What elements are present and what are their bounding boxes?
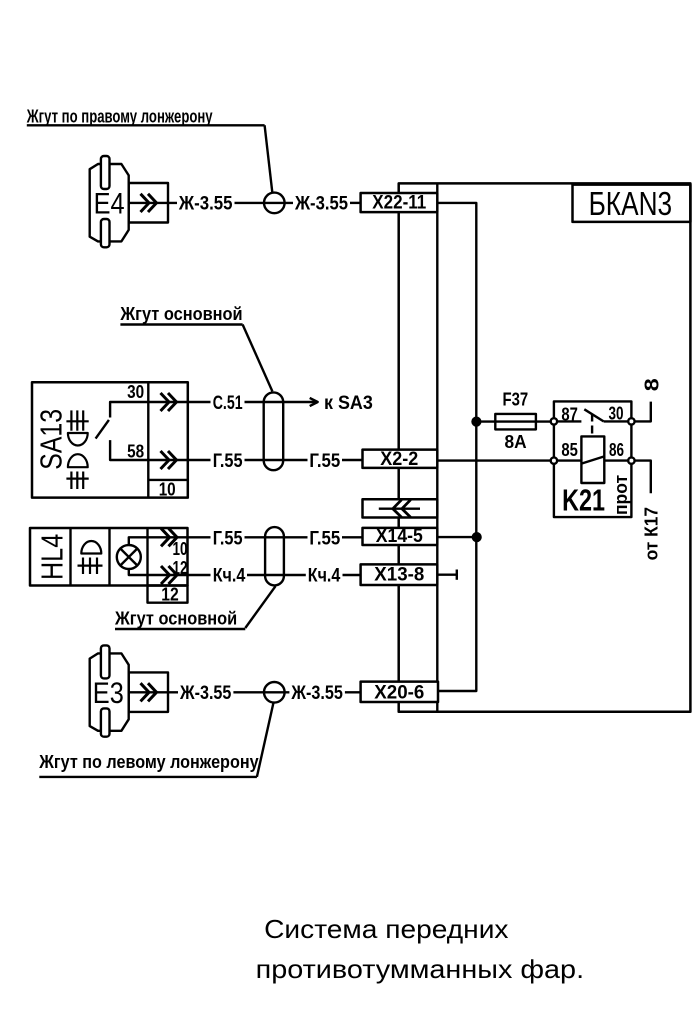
- svg-text:8A: 8A: [505, 432, 527, 452]
- svg-text:30: 30: [609, 404, 624, 424]
- svg-text:12: 12: [173, 558, 188, 578]
- svg-text:от К17: от К17: [642, 507, 662, 561]
- svg-text:8: 8: [641, 378, 663, 391]
- svg-text:HL4: HL4: [35, 534, 70, 580]
- svg-text:X20-6: X20-6: [374, 683, 424, 704]
- svg-text:86: 86: [609, 440, 624, 460]
- svg-text:85: 85: [561, 440, 578, 460]
- svg-text:10: 10: [159, 480, 176, 500]
- svg-text:Система передних: Система передних: [264, 914, 508, 944]
- svg-text:X22-11: X22-11: [372, 193, 426, 214]
- svg-text:12: 12: [161, 585, 179, 605]
- svg-text:Ж-3.55: Ж-3.55: [179, 683, 232, 704]
- svg-text:Кч.4: Кч.4: [308, 566, 341, 587]
- svg-text:Ж-3.55: Ж-3.55: [291, 683, 344, 704]
- svg-text:Г.55: Г.55: [309, 528, 340, 549]
- svg-text:58: 58: [127, 442, 144, 462]
- svg-text:SA13: SA13: [34, 409, 69, 470]
- svg-text:БКАN3: БКАN3: [589, 186, 673, 223]
- svg-text:противотумманных фар.: противотумманных фар.: [256, 954, 585, 984]
- svg-text:Кч.4: Кч.4: [213, 566, 246, 587]
- svg-text:X13-8: X13-8: [374, 565, 424, 586]
- svg-text:Ж-3.55: Ж-3.55: [294, 194, 348, 215]
- svg-text:Жгут основной: Жгут основной: [114, 607, 237, 628]
- svg-text:E4: E4: [94, 187, 125, 220]
- svg-text:E3: E3: [93, 677, 124, 710]
- svg-text:Жгут основной: Жгут основной: [120, 303, 243, 324]
- svg-text:Г.55: Г.55: [309, 451, 340, 472]
- svg-text:С.51: С.51: [213, 393, 243, 414]
- svg-text:прот: прот: [611, 475, 631, 515]
- svg-text:Ж-3.55: Ж-3.55: [178, 194, 233, 215]
- svg-text:F37: F37: [503, 389, 529, 409]
- svg-text:к SA3: к SA3: [324, 393, 373, 414]
- svg-text:10: 10: [173, 539, 188, 559]
- svg-text:X2-2: X2-2: [380, 449, 418, 470]
- svg-text:Жгут по левому лонжерону: Жгут по левому лонжерону: [38, 751, 259, 772]
- svg-text:Г.55: Г.55: [213, 528, 243, 549]
- svg-text:87: 87: [561, 405, 578, 425]
- svg-text:K21: K21: [562, 483, 605, 518]
- svg-text:Жгут по правому лонжерону: Жгут по правому лонжерону: [26, 106, 213, 127]
- svg-text:X14-5: X14-5: [376, 526, 423, 547]
- svg-text:Г.55: Г.55: [213, 451, 243, 472]
- svg-text:30: 30: [127, 382, 144, 402]
